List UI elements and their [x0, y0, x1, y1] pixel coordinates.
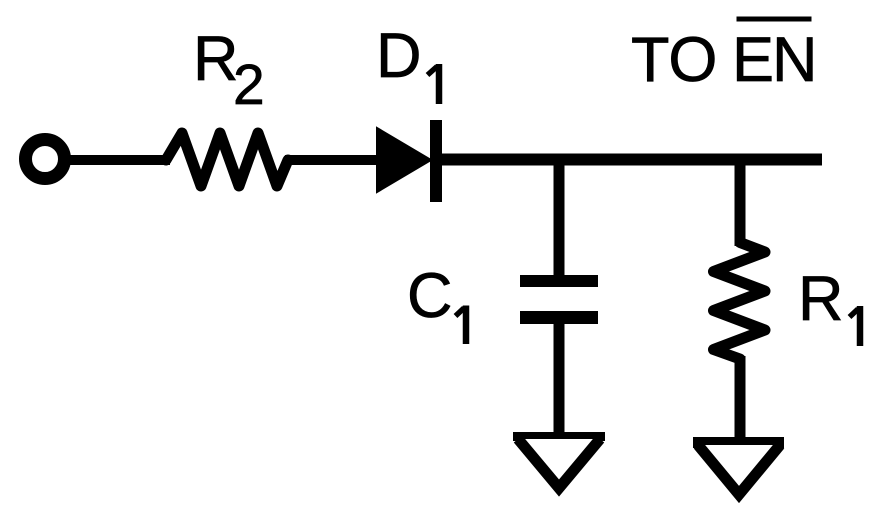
- diode D1: [377, 120, 436, 202]
- svg-text:TO: TO: [631, 25, 717, 95]
- wire: [63, 155, 170, 165]
- label R1: [798, 264, 860, 346]
- svg-text:EN: EN: [732, 25, 816, 95]
- input terminal: [26, 140, 65, 179]
- ground: [513, 437, 605, 489]
- node TO EN: [631, 19, 816, 95]
- label D1: [376, 21, 439, 104]
- label C1: [407, 261, 466, 344]
- wire: [432, 154, 822, 166]
- resistor R2: [166, 133, 288, 186]
- svg-text:2: 2: [233, 53, 265, 117]
- ground: [693, 443, 784, 495]
- svg-text:R: R: [798, 264, 844, 334]
- wire: [554, 311, 565, 440]
- wire: [735, 154, 746, 246]
- svg-text:R: R: [193, 24, 239, 94]
- label R2: [193, 24, 265, 117]
- svg-text:D: D: [376, 21, 422, 91]
- resistor R1: [714, 243, 766, 360]
- wire: [735, 356, 746, 447]
- capacitor C1: [520, 281, 598, 318]
- wire: [285, 155, 380, 165]
- svg-text:C: C: [407, 261, 453, 331]
- wire: [554, 154, 565, 277]
